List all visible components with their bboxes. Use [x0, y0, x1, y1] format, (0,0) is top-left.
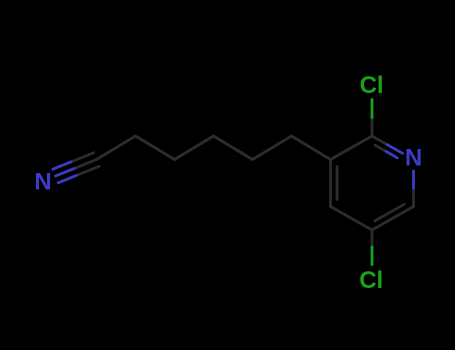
ring bond C2r=N1r inner double line (C-half gray): [375, 145, 386, 151]
ring bond C2r-C3r: [331, 136, 373, 160]
nitrile triple bond N#C (middle line, N-half blue): [56, 168, 77, 176]
nitrile triple bond N#C (upper line, C-half gray): [73, 153, 94, 161]
bond C5r-Cl bottom (C-half gray): [371, 230, 374, 247]
nitrile triple bond N#C (lower line, N-half blue): [58, 175, 78, 183]
chain bond C1-C2: [97, 136, 136, 160]
svg-text:N: N: [405, 145, 422, 172]
bond C2r-Cl top (C-half gray): [371, 118, 374, 137]
svg-text:N: N: [34, 169, 51, 196]
ring bond C2r=N1r inner double line (N-half blue): [386, 151, 397, 157]
chain bond C2-C3: [136, 136, 175, 160]
ring bond C4r-C5r: [331, 207, 373, 231]
svg-text:Cl: Cl: [360, 72, 384, 99]
ring bond C3r=C4r inner double line: [336, 167, 339, 200]
nitrile triple bond N#C (upper line, N-half blue): [53, 161, 74, 169]
ring bond C6r-N1r (C-half gray): [412, 188, 415, 207]
ring bond C5r-C6r (outer): [372, 207, 414, 231]
bond C6-ring: [292, 136, 331, 160]
chain bond C5-C6: [253, 136, 292, 160]
ring bond C5r=C6r inner double line: [375, 204, 404, 221]
chain bond C4-C5: [214, 136, 253, 160]
svg-text:Cl: Cl: [359, 267, 383, 294]
nitrile triple bond N#C (lower line, C-half gray): [79, 166, 100, 174]
ring bond C2r=N1r main line (N-half blue): [387, 145, 402, 154]
chain bond C3-C4: [175, 136, 214, 160]
ring bond C2r=N1r main line (C-half gray): [372, 136, 387, 145]
bond C5r-Cl bottom (Cl-half green): [371, 247, 374, 265]
nitrile triple bond N#C (middle line, C-half gray): [76, 160, 97, 168]
bond C2r-Cl top (Cl-half green): [371, 100, 374, 118]
ring bond C6r-N1r (N-half blue): [412, 171, 415, 188]
ring bond C3r-C4r (outer): [329, 160, 332, 207]
